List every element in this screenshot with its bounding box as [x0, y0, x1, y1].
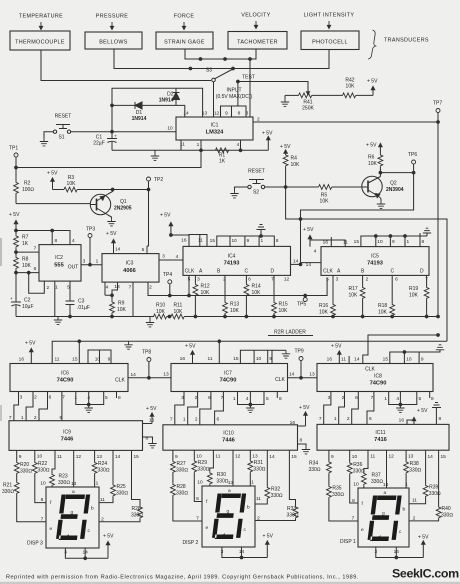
diode D2 1N914 [159, 88, 180, 105]
wire pin 8 IC11 to ground [435, 408, 437, 424]
pin 15 IC4 [210, 238, 216, 244]
svg-text:10K: 10K [291, 162, 301, 168]
svg-text:A: A [337, 269, 341, 275]
svg-text:R14: R14 [252, 284, 261, 290]
resistor R8 10K [14, 252, 32, 273]
label TP9 [295, 349, 304, 355]
resistor R3 10K [53, 175, 113, 192]
svg-text:TP1: TP1 [9, 146, 18, 152]
svg-text:3: 3 [162, 254, 165, 260]
wire R3 line to TP2 [113, 189, 149, 191]
wire pin12 to DISP1 [386, 450, 388, 488]
wire S2 left to ground [235, 187, 248, 190]
svg-text:2: 2 [101, 517, 104, 523]
node R10 R11 [168, 315, 171, 318]
svg-text:14: 14 [293, 259, 299, 265]
svg-text:R37: R37 [372, 473, 381, 479]
resistor R23 330 [50, 450, 71, 487]
ground IC7 pins [246, 405, 254, 413]
node R19 bus [425, 315, 428, 318]
potentiometer R41 250K [285, 93, 343, 112]
arrow PRESSURE [110, 22, 113, 30]
svg-text:+ 5V: + 5V [418, 535, 429, 541]
svg-text:2: 2 [413, 516, 416, 522]
node IC4 rail gnd [260, 235, 263, 238]
test point TP4 [168, 280, 172, 284]
svg-text:13: 13 [309, 372, 315, 378]
pushbutton S2 RESET [248, 169, 265, 196]
brace [368, 30, 376, 59]
svg-text:R16: R16 [319, 303, 328, 309]
svg-text:10K: 10K [409, 293, 419, 299]
scan artifact left smudge 1 [0, 238, 2, 266]
node TP8 junction [148, 376, 151, 379]
svg-text:555: 555 [54, 263, 64, 269]
svg-text:+ 5V: + 5V [263, 534, 274, 540]
IC6 top rail pins 15 10 9 [88, 350, 111, 364]
svg-text:R22: R22 [38, 461, 47, 467]
label TP3 [86, 227, 95, 233]
svg-text:1K: 1K [22, 241, 29, 247]
transistor Q1 2N2905 [90, 194, 132, 215]
svg-text:16: 16 [181, 238, 187, 244]
resistor R16 10K [319, 275, 335, 316]
svg-text:11: 11 [256, 496, 261, 502]
svg-text:330Ω: 330Ω [429, 491, 441, 497]
wire pin16 +5V [310, 237, 331, 247]
wire pin 11 stub [331, 240, 345, 247]
resistor R6 10K [368, 154, 383, 173]
svg-text:2: 2 [366, 277, 369, 283]
svg-text:1: 1 [261, 238, 264, 244]
node bellows junction [189, 67, 192, 70]
svg-text:74C90: 74C90 [220, 378, 237, 384]
svg-text:330Ω: 330Ω [287, 513, 299, 519]
svg-text:+ 5V: + 5V [106, 231, 117, 237]
wire bellows down [114, 49, 233, 69]
svg-text:7: 7 [41, 517, 44, 523]
pin 4 [237, 142, 240, 148]
display box DISP 2 [183, 486, 256, 547]
wire S2 node down to clock bus [286, 187, 447, 341]
svg-text:8: 8 [422, 239, 425, 245]
wire IC6 CLK to IC7 [128, 377, 171, 379]
svg-text:13: 13 [97, 454, 103, 460]
wire diode branch vertical [112, 88, 203, 132]
svg-text:d: d [223, 533, 226, 539]
svg-text:OUT: OUT [68, 265, 79, 271]
svg-text:10: 10 [196, 454, 202, 460]
wire to pin 6 [16, 272, 39, 274]
label TP5 [297, 302, 306, 308]
pin 12 [214, 111, 220, 117]
label PRESSURE [96, 14, 129, 20]
svg-text:330Ω: 330Ω [38, 468, 50, 474]
svg-text:12: 12 [284, 277, 290, 283]
svg-text:14: 14 [115, 454, 121, 460]
IC10 bottom pin labels 9-15 [175, 454, 297, 461]
node TP2 junction [147, 188, 150, 191]
svg-text:6: 6 [49, 395, 52, 401]
resistor R11 10K [167, 303, 438, 319]
svg-text:330Ω: 330Ω [176, 468, 188, 474]
pin 4 IC3 [106, 285, 109, 291]
svg-text:CLK: CLK [275, 377, 285, 383]
svg-text:R2: R2 [24, 181, 31, 187]
resistor R30 330 [207, 450, 228, 486]
wire TP5 stub [304, 296, 306, 298]
svg-text:R21: R21 [3, 483, 12, 489]
ground 555 [54, 317, 62, 325]
svg-text:8: 8 [300, 438, 303, 444]
svg-text:8: 8 [55, 238, 58, 244]
analog switch IC3 4066 [102, 254, 159, 283]
pin 9 IC7 [269, 356, 272, 362]
svg-text:8: 8 [431, 396, 434, 402]
node IC5 rail dots [374, 235, 406, 238]
svg-text:9: 9 [269, 356, 272, 362]
svg-text:9: 9 [19, 454, 22, 460]
counter IC7 74C90 [171, 364, 288, 392]
counter IC6 74C90 [10, 364, 128, 392]
resistor R25 330 [99, 450, 128, 502]
svg-text:R28: R28 [177, 484, 186, 490]
svg-text:1N914: 1N914 [132, 116, 147, 122]
svg-text:8: 8 [276, 238, 279, 244]
svg-text:R35: R35 [332, 486, 341, 492]
svg-text:R31: R31 [254, 460, 263, 466]
node TP6 junction [412, 171, 415, 174]
svg-text:D: D [271, 269, 275, 275]
svg-text:7: 7 [196, 516, 199, 522]
svg-text:2: 2 [34, 415, 37, 421]
svg-text:16: 16 [149, 418, 155, 424]
svg-text:CLK: CLK [115, 378, 125, 384]
pin 7 IC4 [271, 277, 274, 283]
resistor R22 330 [32, 450, 49, 502]
svg-text:TACHOMETER: TACHOMETER [237, 40, 278, 46]
power +5V IC1 [262, 131, 273, 151]
svg-text:330Ω: 330Ω [332, 492, 344, 498]
wire 555 out to IC3 [81, 264, 102, 266]
wire pin 11 loop [189, 235, 207, 247]
node clock TP5 [304, 294, 307, 297]
wire clk drop IC7 pin [218, 341, 220, 363]
pin 6 IC5 [395, 277, 398, 283]
pin 8 IC5 [422, 239, 425, 245]
pin 8 [238, 111, 241, 117]
svg-text:+ 5V: + 5V [185, 344, 196, 350]
svg-text:IC10: IC10 [223, 431, 234, 437]
svg-text:22µF: 22µF [93, 141, 105, 147]
svg-text:10: 10 [406, 357, 412, 363]
resistor R19 10K [409, 275, 429, 316]
node TP9 junction [300, 376, 303, 379]
resistor R13 10K [223, 275, 240, 316]
svg-text:3: 3 [197, 277, 200, 283]
node R7 R8 junction pin 7 [15, 251, 18, 254]
svg-text:e: e [50, 527, 53, 532]
svg-text:1: 1 [251, 480, 254, 486]
label TEMPERATURE [19, 14, 63, 20]
node DISP1 rail [395, 556, 398, 559]
svg-text:8: 8 [352, 498, 355, 504]
pin 16 IC5 [323, 240, 329, 246]
test point TP9 [299, 357, 303, 361]
test point TP5 [303, 298, 307, 302]
pin 11 IC8 [341, 357, 346, 363]
transistor Q2 2N3904 [362, 176, 404, 197]
resistor R17 10K [349, 275, 366, 316]
pin 1 [197, 142, 200, 148]
pin 13 IC8 [309, 372, 315, 378]
svg-text:11: 11 [198, 238, 203, 244]
power +5V IC6 [25, 341, 36, 364]
pin 16 IC11 [399, 418, 405, 424]
svg-text:330Ω: 330Ω [441, 513, 453, 519]
wire Q1 collector to ground [108, 215, 112, 218]
svg-text:6: 6 [395, 277, 398, 283]
svg-text:13: 13 [383, 482, 389, 488]
svg-text:R27: R27 [177, 461, 186, 467]
svg-text:10: 10 [256, 356, 262, 362]
pin 14 IC8 [354, 357, 360, 363]
svg-text:4: 4 [246, 396, 249, 402]
wire TP7 bus down right side [437, 113, 439, 317]
IC7 ground loop pins 1 4 5 [233, 392, 282, 405]
svg-text:2: 2 [195, 417, 198, 423]
transducer box PHOTOCELL [301, 31, 359, 50]
scan artifact bottom band [0, 582, 460, 584]
arrow LIGHT INTENSITY [327, 21, 330, 29]
node pin2 tie [27, 271, 30, 274]
pin 13 IC3 [114, 284, 120, 290]
svg-text:Q1: Q1 [120, 199, 127, 205]
label R2R LADDER [268, 330, 313, 336]
power +5V IC9 [143, 406, 157, 424]
svg-text:R36: R36 [353, 462, 362, 468]
svg-text:TP6: TP6 [408, 152, 417, 158]
svg-text:1K: 1K [219, 159, 226, 165]
svg-text:74C90: 74C90 [57, 378, 74, 384]
wire DISP2 bottom rail [222, 547, 267, 558]
svg-text:9: 9 [247, 238, 250, 244]
svg-text:11: 11 [370, 454, 375, 460]
resistor R15 10K [272, 275, 288, 316]
svg-text:2: 2 [149, 285, 152, 291]
svg-text:16: 16 [399, 418, 405, 424]
wire S1 to C1 node to IC1 pin 10 [71, 131, 176, 133]
svg-text:+ 5V: + 5V [146, 406, 157, 412]
svg-text:11: 11 [100, 497, 105, 503]
resistor R12 10K [193, 275, 210, 316]
svg-text:330Ω: 330Ω [20, 469, 32, 475]
pin 10 IC7 [256, 356, 262, 362]
svg-text:TP5: TP5 [297, 302, 306, 308]
svg-text:13: 13 [71, 481, 77, 487]
node R8 pin6 junction [15, 271, 18, 274]
pin 1 IC3 [96, 259, 99, 265]
svg-text:d: d [378, 535, 381, 541]
pin 16 IC8 [327, 357, 333, 363]
wire pin12 to display [73, 450, 75, 487]
svg-text:10K: 10K [320, 199, 330, 205]
pin 2 IC3 [149, 285, 152, 291]
timer IC2 555 [39, 245, 81, 282]
node R17 bus [361, 315, 364, 318]
svg-text:R19: R19 [409, 286, 418, 292]
svg-text:10K: 10K [201, 290, 211, 296]
svg-text:3: 3 [328, 395, 331, 401]
power +5V IC4 [160, 213, 173, 236]
counter IC4 74193 [183, 246, 291, 275]
display pin labels DISP1 [352, 482, 418, 556]
pin 13 [202, 111, 208, 117]
svg-text:R20: R20 [20, 462, 29, 468]
node DISP2 rail [240, 556, 243, 559]
svg-text:8: 8 [146, 436, 149, 442]
svg-text:b: b [403, 507, 406, 513]
svg-text:INPUT: INPUT [227, 88, 242, 94]
pin 10 IC5 [377, 239, 383, 245]
label TP1 [9, 146, 18, 152]
pin 14 [183, 111, 189, 117]
svg-text:330Ω: 330Ω [131, 513, 143, 519]
pushbutton S1 RESET [53, 114, 71, 141]
wires IC7 to IC10 [175, 392, 224, 425]
node pin4 [239, 149, 242, 152]
svg-text:1: 1 [96, 481, 99, 487]
svg-text:7: 7 [34, 246, 37, 252]
test point TP7 [436, 109, 440, 113]
svg-text:R4: R4 [291, 156, 298, 162]
node R18 bus [391, 315, 394, 318]
wire pin 11 down [180, 140, 182, 150]
ground IC6 from bus [124, 341, 132, 349]
svg-text:CLK: CLK [185, 269, 195, 275]
svg-text:10: 10 [37, 454, 43, 460]
capacitor C3 .01uF [66, 281, 90, 316]
test point TP8 [147, 358, 151, 362]
wire comparator feed line [363, 335, 438, 364]
svg-text:C3: C3 [78, 299, 85, 305]
power +5V IC10 [290, 405, 310, 426]
pin 11 IC5 [343, 240, 348, 246]
node IC8 rail [403, 351, 406, 354]
pin 12 IC4 [284, 277, 290, 283]
svg-text:DISP 2: DISP 2 [183, 540, 199, 546]
wire IC8 rail to ground [419, 350, 440, 352]
node clk drop IC7 [218, 340, 221, 343]
svg-text:B: B [361, 269, 365, 275]
svg-text:1: 1 [405, 482, 408, 488]
svg-text:12: 12 [76, 454, 82, 460]
svg-text:13: 13 [163, 372, 169, 378]
svg-text:R30: R30 [217, 472, 226, 478]
node IC1 output to bus [437, 121, 440, 124]
resistor R10 10K [153, 303, 167, 319]
svg-text:16: 16 [290, 420, 296, 426]
svg-text:11: 11 [215, 454, 220, 460]
node TP1 [15, 166, 18, 169]
node tach junction [224, 58, 227, 61]
pin 10 IC6 [95, 357, 101, 363]
pin 4 [72, 238, 75, 244]
svg-text:10K: 10K [346, 84, 356, 90]
svg-text:CLK: CLK [323, 269, 333, 275]
resistor R35 330 [327, 474, 359, 521]
node pin8 rail [51, 229, 54, 232]
svg-text:2: 2 [347, 416, 350, 422]
svg-text:9: 9 [331, 454, 334, 460]
svg-text:7: 7 [352, 516, 355, 522]
wire drop to IC1 pin 3 [249, 59, 251, 117]
wire pin 14 IC5 to reset vertical [301, 263, 322, 265]
svg-text:FORCE: FORCE [174, 14, 195, 20]
node R14 bus [245, 315, 248, 318]
svg-text:15: 15 [210, 238, 216, 244]
power +5V DISP3 [103, 534, 114, 559]
pin 1 [55, 285, 58, 291]
pin 7 [34, 246, 37, 252]
svg-text:4: 4 [72, 238, 75, 244]
wire pins 4 13 to R9 [105, 282, 118, 295]
svg-text:+ 5V: + 5V [103, 534, 114, 540]
ground IC7 rail [272, 350, 290, 358]
svg-text:10K: 10K [230, 308, 240, 314]
pin 13 IC7 [163, 372, 169, 378]
svg-text:R12: R12 [201, 284, 210, 290]
label TP2 [154, 177, 163, 183]
svg-text:8: 8 [118, 395, 121, 401]
svg-text:15: 15 [383, 357, 389, 363]
svg-text:Reprinted with permission from: Reprinted with permission from Radio-Ele… [6, 575, 359, 581]
svg-text:6: 6 [217, 417, 220, 423]
svg-text:1: 1 [21, 415, 24, 421]
svg-text:2N3904: 2N3904 [386, 187, 404, 193]
arrow FORCE [182, 22, 185, 30]
power +5V R3 [47, 171, 58, 190]
svg-text:R23: R23 [59, 474, 68, 480]
pin 11 IC7 [208, 356, 213, 362]
wire S1 left to ground [44, 132, 53, 138]
resistor R33 330 [255, 450, 299, 520]
svg-text:2: 2 [47, 285, 50, 291]
svg-text:330Ω: 330Ω [197, 467, 209, 473]
wire IC7 CLK to IC8 [288, 377, 318, 379]
pin 5 [67, 285, 70, 291]
svg-text:+ 5V: + 5V [262, 131, 273, 137]
svg-text:12: 12 [235, 454, 241, 460]
wire IC8 pin 8 stub [429, 392, 431, 399]
svg-text:1: 1 [197, 142, 200, 148]
pin 15 IC8 [383, 357, 389, 363]
svg-text:S1: S1 [58, 135, 64, 141]
node DISP3 rail [84, 557, 87, 560]
power +5V IC5 [303, 227, 314, 247]
node IC8 gnd loop [399, 403, 402, 406]
svg-text:16: 16 [327, 357, 333, 363]
pin 7 IC3 [129, 285, 132, 291]
pin 3 IC3 [162, 254, 165, 260]
svg-text:7: 7 [62, 395, 65, 401]
svg-text:1: 1 [55, 285, 58, 291]
pin 8 IC4 [276, 238, 279, 244]
wire strain gage down [185, 49, 256, 59]
node ladder end [437, 315, 440, 318]
svg-text:10: 10 [95, 357, 101, 363]
svg-text:C: C [391, 269, 395, 275]
